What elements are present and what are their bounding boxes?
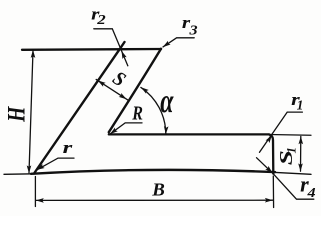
wire web right edge xyxy=(109,49,161,132)
arrow R xyxy=(109,128,118,136)
arrow B right xyxy=(265,198,273,203)
svg-text:2: 2 xyxy=(96,12,106,27)
svg-text:1: 1 xyxy=(284,147,299,154)
svg-text:R: R xyxy=(131,102,143,124)
wire bottom edge thick xyxy=(31,170,275,174)
svg-text:4: 4 xyxy=(306,186,315,200)
arrow H bottom xyxy=(27,165,32,173)
wire flange right edge with fillet xyxy=(269,135,273,174)
B dimension line xyxy=(36,199,273,201)
arrow alpha bottom xyxy=(164,126,169,134)
arrow r xyxy=(35,164,44,172)
leader R xyxy=(110,123,142,134)
wire bottom left extension xyxy=(4,173,34,176)
wire top flange outline xyxy=(22,48,161,51)
leader r3 xyxy=(163,38,194,47)
wire bottom flange top edge xyxy=(109,133,269,135)
arrow r2 xyxy=(119,50,126,59)
H dimension line xyxy=(29,51,33,173)
leader r xyxy=(37,158,74,170)
svg-text:1: 1 xyxy=(297,97,304,112)
arrow S1 top xyxy=(299,136,304,144)
svg-text:B: B xyxy=(151,180,165,200)
alpha angle arc xyxy=(141,87,166,134)
arrow S1 bottom xyxy=(298,163,303,171)
arrow r1 xyxy=(266,134,274,143)
wire web left edge xyxy=(34,42,125,174)
svg-text:3: 3 xyxy=(188,24,198,38)
S1 dimension line xyxy=(300,136,302,171)
S dimension line xyxy=(96,79,128,100)
wire flange top extension line xyxy=(269,134,311,137)
arrow H top xyxy=(31,50,36,58)
arrow alpha top xyxy=(140,85,149,93)
svg-text:r: r xyxy=(63,138,73,157)
B extension line left xyxy=(34,177,36,207)
B extension line right xyxy=(272,176,274,208)
leader r4 xyxy=(257,158,314,200)
arrow S lower xyxy=(119,93,128,101)
svg-text:α: α xyxy=(160,83,174,120)
arrow r3 xyxy=(161,41,170,49)
wire bottom right extension xyxy=(273,172,311,174)
arrow S upper xyxy=(96,78,105,86)
leader r2 xyxy=(94,29,128,66)
svg-text:S: S xyxy=(109,68,130,92)
svg-text:H: H xyxy=(2,106,30,123)
arrow B left xyxy=(36,198,44,203)
arrow r4 xyxy=(265,166,274,175)
leader r1 xyxy=(260,112,303,152)
